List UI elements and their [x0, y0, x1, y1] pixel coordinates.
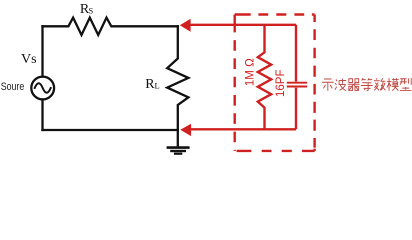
svg-text:Soure: Soure: [1, 81, 25, 93]
svg-text:RL: RL: [145, 77, 160, 92]
svg-text:Vs: Vs: [21, 52, 37, 67]
svg-text:RS: RS: [80, 2, 94, 17]
svg-text:16PF: 16PF: [275, 70, 287, 98]
svg-text:1M Ω: 1M Ω: [244, 58, 256, 86]
